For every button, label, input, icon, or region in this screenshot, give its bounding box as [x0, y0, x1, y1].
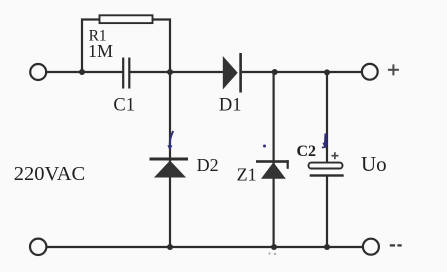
junction D2 branch at rail [167, 244, 173, 250]
junction Z1 branch at rail [271, 244, 277, 250]
junction node D (C2 tap) [324, 69, 330, 75]
terminal OUT+ (top-right) [362, 64, 378, 80]
svg-text:C2: C2 [297, 143, 317, 160]
wire IN+ to C1 left plate [46, 71, 123, 73]
wire node C down to bottom rail (Z1 branch) [273, 72, 275, 247]
junction C2 branch at rail [324, 244, 330, 250]
junction node B (D2 tap) [167, 69, 173, 75]
polarity -- of output [390, 244, 402, 246]
wire C1 to D1 anode [129, 71, 223, 73]
zener diode Z1 [256, 160, 289, 179]
annotation arrow (blue, at C2) [322, 134, 328, 149]
terminal OUT- (bottom-right) [363, 239, 379, 255]
terminal IN- (bottom-left) [30, 239, 46, 255]
svg-text:Uo: Uo [361, 152, 387, 176]
speck marks under rail [268, 252, 276, 255]
wire R1 left lead (node A up and over) [82, 20, 100, 73]
wire C2 bottom plate to bottom rail [326, 177, 328, 248]
wire bottom rail [46, 246, 362, 248]
junction node C (Z1 tap) [272, 69, 278, 75]
capacitor C1 (series plates) [123, 58, 129, 89]
svg-text:Z1: Z1 [237, 165, 257, 185]
diode D1 (series, pointing right) [223, 53, 242, 93]
annotation dot (blue, near Z1) [263, 145, 266, 148]
annotation arrow (blue, on D2 branch) [167, 131, 173, 151]
wire node B down to bottom rail (D2 branch) [169, 72, 171, 247]
wire R1 right lead (down to node B) [153, 20, 171, 73]
wire node D down to C2 top plate [326, 72, 328, 163]
polarity + of output [388, 64, 399, 75]
polarity + of C2 [331, 152, 338, 159]
wire D1 cathode to OUT+ [242, 71, 362, 73]
terminal IN+ (top-left) [30, 64, 46, 80]
resistor R1 [100, 15, 153, 23]
diode D2 (cathode bar up, anode below) [150, 158, 189, 178]
svg-text:220VAC: 220VAC [14, 163, 85, 185]
svg-text:C1: C1 [113, 96, 135, 116]
capacitor C2 (electrolytic) [309, 163, 344, 177]
svg-text:D1: D1 [219, 96, 242, 116]
svg-text:D2: D2 [197, 155, 219, 175]
junction node A (R1 tap) [79, 69, 85, 75]
svg-text:1M: 1M [88, 41, 113, 61]
